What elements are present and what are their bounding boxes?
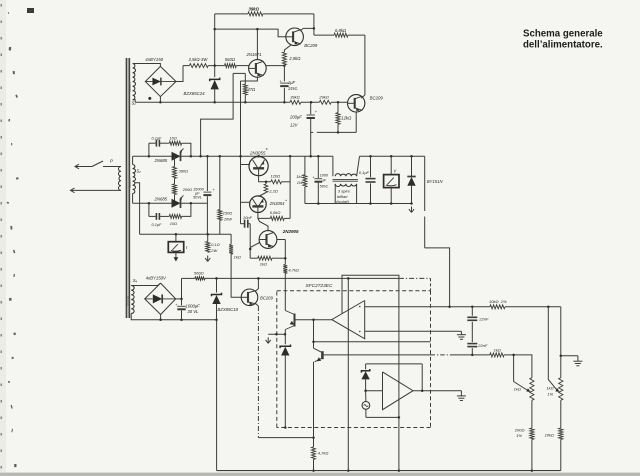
ground (22nF node) — [457, 331, 466, 339]
wire main rail y=156.3 — [133, 155, 333, 158]
zener D8 (reference, internal) — [361, 364, 369, 392]
wire 2N3055 base tap — [241, 164, 251, 166]
svg-text:22nF: 22nF — [477, 343, 488, 348]
svg-text:12V: 12V — [290, 122, 299, 127]
svg-text:10kΩ 1%: 10kΩ 1% — [489, 299, 507, 304]
svg-text:Schema generale: Schema generale — [523, 28, 603, 39]
resistor 150R 10W — [218, 156, 232, 234]
capacitor 10nF — [241, 215, 253, 228]
svg-text:BZX85C18: BZX85C18 — [218, 307, 239, 312]
transformer secondary S2 — [128, 165, 141, 194]
svg-text:47Ω: 47Ω — [247, 87, 256, 92]
svg-text:1%: 1% — [547, 391, 553, 396]
bridge bottom to bus — [159, 97, 162, 104]
svg-text:12kΩ: 12kΩ — [341, 116, 352, 121]
ground arrow (internal) — [266, 333, 287, 343]
svg-text:39kΩ: 39kΩ — [290, 95, 300, 100]
svg-text:2,2Ω: 2,2Ω — [268, 188, 278, 193]
wire step to SCR bus — [201, 73, 234, 156]
wire output sense line — [425, 156, 450, 306]
svg-text:15VL: 15VL — [288, 86, 298, 91]
bridge rectifier D2 4xBY150V — [145, 276, 176, 315]
wire 2N3055 emitter row — [259, 176, 271, 182]
current source CS1 — [362, 391, 370, 418]
resistor 560 (top) — [225, 57, 237, 67]
resistor 12k — [336, 102, 352, 133]
transistor Q6 2N2905 — [258, 218, 299, 248]
wire output rail right — [360, 155, 425, 158]
wire pass transistor collector line — [284, 278, 286, 310]
svg-text:390Ω: 390Ω — [179, 168, 188, 173]
svg-text:P: P — [110, 158, 113, 163]
zener D6 BZX85C18 — [212, 278, 239, 321]
zener D7 (internal) — [280, 345, 290, 429]
capacitor 22nF (lower) — [467, 343, 488, 356]
svg-text:1kΩ: 1kΩ — [296, 174, 303, 179]
transformer core — [127, 58, 130, 318]
svg-text:29kΩ: 29kΩ — [318, 95, 329, 100]
voltmeter V — [384, 156, 399, 203]
wire reference top row — [366, 363, 423, 365]
svg-text:S₂: S₂ — [136, 168, 141, 173]
capacitor 0,1uF (output) — [359, 156, 376, 203]
inductor L1 bifilar choke — [333, 156, 360, 204]
svg-text:1kΩ: 1kΩ — [260, 262, 267, 267]
switch P and mains plug — [71, 158, 122, 192]
svg-text:S₄: S₄ — [133, 278, 138, 283]
wire main bus — [135, 101, 347, 103]
resistor 39k (top rail) — [248, 6, 263, 16]
svg-text:*: * — [266, 148, 268, 154]
wire x=250.2 column — [249, 224, 252, 259]
capacitor 200uF 12V — [289, 102, 318, 156]
svg-text:560Ω: 560Ω — [225, 57, 236, 62]
resistor 4,7k (to bus) — [283, 265, 299, 279]
ammeter I — [168, 234, 188, 261]
svg-text:50VL: 50VL — [320, 185, 329, 189]
IC U1 SFC2723EC dashed box — [277, 283, 431, 428]
wire zener to opamp2 input — [366, 390, 383, 392]
svg-text:030165: 030165 — [128, 82, 132, 92]
ground (output) — [409, 207, 414, 213]
svg-text:200Ω: 200Ω — [514, 427, 525, 432]
resistor 390R gate chain — [173, 156, 189, 178]
transformer primary — [118, 167, 121, 191]
svg-text:4xBY150: 4xBY150 — [145, 57, 163, 62]
wire 2N2905 base tap — [250, 243, 259, 248]
svg-text:dell’alimentatore.: dell’alimentatore. — [523, 39, 603, 50]
wire collector drop x=364.9 — [361, 35, 365, 98]
op-amp A1 (error amplifier) — [332, 301, 365, 339]
svg-text:0,1μF: 0,1μF — [359, 170, 370, 175]
svg-text:0,1μF: 0,1μF — [152, 222, 163, 227]
svg-text:4,7kΩ: 4,7kΩ — [288, 267, 299, 272]
wire internal rail U-hat — [342, 275, 399, 417]
wire S2 top lead — [132, 156, 134, 164]
svg-text:200Ω: 200Ω — [182, 187, 192, 192]
resistor 200R 1% — [514, 400, 534, 472]
transistor Q1 2N1671 — [241, 29, 267, 81]
svg-text:560Ω: 560Ω — [194, 270, 204, 275]
rheostat 1k — [514, 378, 534, 401]
zener D5 BZX85C24 — [184, 66, 220, 104]
wire BC209 emitter dashdot — [255, 303, 258, 437]
resistor 39k (bus) — [290, 95, 301, 105]
snubber C 0,1uF R 10R (upper) — [149, 135, 191, 156]
resistor 1k (divider row) — [490, 347, 532, 377]
svg-text:1%: 1% — [516, 433, 522, 438]
wire noninverting input run — [365, 330, 458, 332]
wire top rail — [215, 13, 314, 15]
resistor 6,8k (top) — [314, 28, 365, 37]
svg-text:10Ω: 10Ω — [170, 221, 177, 226]
polarity dot — [148, 97, 151, 100]
wire reference row — [312, 341, 430, 344]
wire 2N2905 collector — [277, 240, 285, 265]
wire column x=398.9 to rail — [398, 417, 401, 471]
wire left riser x=214.7 — [214, 14, 216, 66]
wire driver column x=240.5 — [239, 81, 242, 224]
title text — [523, 28, 603, 50]
capacitor 1000uF 50VL (output) — [312, 156, 329, 203]
wire SCR row2 — [133, 202, 208, 205]
svg-text:SFC2723EC: SFC2723EC — [306, 283, 333, 289]
thyristor SCR1 2N685 (upper) — [154, 149, 184, 164]
wire inverting input run — [365, 306, 450, 308]
svg-text:2,9kΩ: 2,9kΩ — [288, 56, 301, 61]
svg-text:BY151N: BY151N — [427, 179, 444, 184]
svg-text:1000μF: 1000μF — [186, 303, 201, 308]
resistor 10k 1% — [489, 299, 561, 309]
rheostat 1k 1% — [546, 378, 563, 401]
wire top rail right drop — [313, 14, 316, 35]
svg-text:1kΩ: 1kΩ — [514, 386, 521, 391]
wire zener column to bottom rail — [216, 320, 218, 471]
wire bridge2 bottom — [159, 315, 216, 322]
resistor 2,9k — [282, 52, 301, 67]
resistor 29k (bus) — [310, 95, 339, 105]
resistor 560R (lower) — [194, 270, 205, 280]
wire to 4,7k bottom — [258, 436, 314, 439]
svg-text:6,8kΩ: 6,8kΩ — [270, 210, 281, 215]
wire 10k row — [448, 306, 489, 309]
svg-text:*: * — [285, 199, 287, 204]
svg-text:1kΩ: 1kΩ — [494, 347, 501, 352]
wire ground rail — [217, 470, 561, 472]
wire pot2 feed — [560, 307, 562, 356]
resistor 120R — [271, 173, 291, 183]
capacitor 1uF 15VL — [280, 66, 299, 104]
svg-text:030168: 030168 — [126, 296, 130, 306]
resistor 1k (vertical) — [229, 234, 241, 297]
svg-text:1kΩ: 1kΩ — [234, 255, 241, 260]
svg-text:2N685: 2N685 — [154, 158, 168, 163]
resistor 10k (bottom) — [545, 400, 563, 470]
svg-text:030166: 030166 — [128, 178, 132, 188]
transistor T1 (internal) — [285, 311, 296, 330]
svg-text:2N3054: 2N3054 — [269, 201, 285, 206]
wire wiper tap 2 — [547, 307, 549, 380]
wire 1k row — [324, 354, 490, 356]
wire 2N3054 base tap — [241, 201, 250, 203]
svg-text:1kΩ: 1kΩ — [546, 385, 553, 390]
svg-text:g: g — [180, 196, 182, 200]
capacitor 1000uF 30VL — [175, 299, 200, 320]
bridge rectifier D1 4xBY150 — [145, 57, 176, 97]
resistor 200R gate chain — [173, 179, 193, 204]
svg-text:BC209: BC209 — [304, 43, 318, 48]
resistor 1k (emitter row) — [250, 256, 286, 266]
svg-text:50VL: 50VL — [193, 195, 202, 200]
snubber C 0,1uF R 10R (lower) — [149, 203, 191, 227]
transistor Q3 BC209 (right) — [348, 95, 384, 133]
wire emitter to zener — [284, 330, 286, 345]
transistor Q7 BC209 (lower) — [241, 278, 273, 305]
svg-text:BC209: BC209 — [370, 96, 384, 101]
svg-text:0,1μF: 0,1μF — [152, 135, 163, 140]
wire bridge2 plus riser — [176, 278, 183, 300]
transistor Q5 2N3054* — [250, 196, 288, 213]
ground (pot2 top) — [560, 355, 583, 366]
thyristor SCR2 2N685 (lower) — [154, 195, 184, 208]
svg-text:3,5kΩ-3W: 3,5kΩ-3W — [189, 57, 209, 62]
wire output bottom rail — [305, 202, 413, 205]
wire T2 collector drop — [313, 320, 315, 348]
diode D3 BY151N — [407, 156, 443, 203]
svg-text:0,1Ω: 0,1Ω — [211, 242, 219, 247]
svg-text:39kΩ: 39kΩ — [249, 6, 260, 11]
ground (opamp2 output) — [457, 391, 466, 401]
wire pot2 top — [560, 356, 562, 378]
svg-text:g: g — [180, 149, 182, 153]
svg-text:BZX85C24: BZX85C24 — [184, 91, 206, 96]
svg-text:10Ω: 10Ω — [170, 135, 177, 140]
svg-text:150Ω: 150Ω — [223, 211, 232, 216]
capacitor 15000uF 50VL — [193, 156, 216, 234]
svg-text:22nF: 22nF — [478, 316, 489, 321]
wire 3.5k row — [183, 64, 284, 67]
wire 2N3054 emitter row — [258, 213, 270, 219]
wire S2 center tap — [135, 183, 140, 234]
svg-text:2N1671: 2N1671 — [246, 52, 263, 57]
wire current source bottom — [366, 416, 400, 419]
svg-text:1μF: 1μF — [288, 80, 296, 85]
wire regulator supply row — [182, 277, 431, 291]
resistor 47R — [233, 73, 256, 103]
svg-text:30 VL: 30 VL — [187, 309, 199, 314]
transistor Q2 BC209 (top) — [284, 28, 318, 52]
wire x=290.1 column — [289, 156, 291, 218]
wire wiper tap 1 — [512, 354, 515, 382]
resistor 4,7k (bottom) — [312, 438, 329, 472]
svg-text:120Ω: 120Ω — [271, 173, 281, 178]
transformer secondary S4 — [126, 278, 137, 314]
svg-text:4,7kΩ: 4,7kΩ — [318, 450, 329, 455]
resistor 0,1R 2W shunt — [205, 234, 220, 261]
transistor T2 (internal) — [314, 348, 323, 437]
svg-text:BC209: BC209 — [260, 296, 273, 301]
potentiometer 1k (wiper arrow) — [514, 382, 531, 393]
transformer secondary S1 — [128, 64, 136, 106]
svg-text:10nF: 10nF — [243, 215, 253, 220]
wire opamp2 output — [413, 389, 457, 392]
wire T1 base to opamp — [296, 319, 332, 322]
svg-text:2N685: 2N685 — [154, 197, 168, 202]
svg-text:2N2905: 2N2905 — [282, 229, 299, 234]
transistor Q4 2N3055* — [249, 148, 268, 176]
svg-text:10W: 10W — [224, 217, 232, 222]
svg-text:6,8kΩ: 6,8kΩ — [335, 28, 347, 33]
resistor 3,5k-3W — [189, 57, 209, 67]
svg-text:10kΩ: 10kΩ — [545, 432, 555, 437]
wire S4 top lead — [131, 283, 160, 285]
resistor 6,8k (mid) — [270, 210, 290, 220]
wire internal column x=348.3 — [347, 277, 350, 472]
svg-text:2W: 2W — [210, 248, 217, 253]
svg-text:1000: 1000 — [320, 173, 329, 177]
op-amp A2 (reference amplifier) — [383, 372, 414, 410]
wire second rail — [213, 28, 285, 37]
bridge output to 3.5k row — [176, 66, 183, 82]
wire emitter row y=132.4 — [311, 131, 357, 133]
resistor 1k 1W (load) — [296, 156, 307, 203]
capacitor 22nF (upper) — [467, 307, 489, 342]
wire S1 bottom / main bus start — [133, 100, 136, 103]
resistor 2,2R — [259, 181, 278, 197]
svg-text:μF: μF — [321, 178, 327, 182]
wire S1 top to bridge — [133, 64, 161, 67]
svg-text:200μF: 200μF — [289, 114, 302, 119]
potentiometer 1k 1% (wiper arrow) — [548, 380, 559, 392]
svg-text:4xBY150V: 4xBY150V — [146, 276, 167, 281]
wire S2 bottom lead — [132, 194, 134, 204]
svg-text:2N3055: 2N3055 — [249, 150, 266, 155]
wire output return y=234.2 — [140, 233, 232, 236]
wire S4 bottom lead — [131, 314, 160, 320]
wire feedback x=422.2 — [421, 364, 423, 391]
